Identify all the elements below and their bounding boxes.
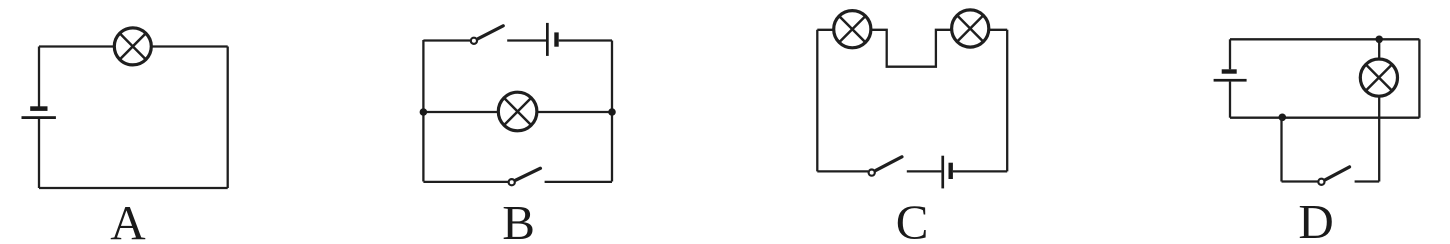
switch S-C lever <box>876 157 902 171</box>
junction dot B right <box>608 108 616 116</box>
wire D: switch branch left vertical <box>1280 118 1282 182</box>
switch S2-B lever <box>516 168 541 180</box>
switch S-C open circle <box>869 170 875 176</box>
switch S1-B open circle <box>471 38 477 44</box>
wire D: right edge <box>1418 39 1420 117</box>
lamp L-B circle <box>498 92 537 131</box>
wire D: left edge upper segment <box>1229 39 1231 69</box>
junction dot D middle <box>1279 114 1287 122</box>
lamp L-D circle <box>1360 59 1397 96</box>
wire B: left edge <box>422 40 424 182</box>
wire C: bottom wire left segment <box>817 170 868 172</box>
battery BT-A (long thin positive plate) <box>22 116 56 119</box>
svg-text:D: D <box>1298 194 1333 244</box>
lamp L-A circle <box>114 28 151 65</box>
switch S-D lever <box>1325 167 1349 180</box>
wire C: top wire left segment <box>817 29 852 31</box>
lamp L-A cross <box>120 33 146 59</box>
switch S-D open circle <box>1318 179 1324 185</box>
wire D: left edge lower segment <box>1229 82 1231 118</box>
wire D: top wire <box>1230 38 1419 40</box>
wire A: left edge upper segment <box>38 47 40 107</box>
wire D: middle wire <box>1230 117 1419 119</box>
wire C: top wire between lamps with dip <box>852 30 970 67</box>
wire B: bottom wire right segment <box>545 181 612 183</box>
battery BT-B long thin plate <box>546 23 549 56</box>
wire D: bottom wire right segment <box>1355 180 1380 182</box>
battery BT-C long thin plate <box>941 156 944 189</box>
svg-text:B: B <box>502 195 535 244</box>
lamp L2-C circle <box>952 10 989 47</box>
battery BT-C short thick plate <box>949 163 953 179</box>
wire C: bottom wire right segment <box>953 170 1007 172</box>
battery BT-D short thick plate <box>1222 69 1237 73</box>
wire A: left edge lower segment <box>38 119 40 188</box>
wire A: bottom wire <box>39 187 228 189</box>
wire A: top wire <box>39 45 228 47</box>
lamp L1-C cross <box>839 16 865 42</box>
wire B: top wire middle segment <box>507 39 546 41</box>
switch S2-B open circle <box>509 179 515 185</box>
wire B: top wire left segment <box>423 39 470 41</box>
battery BT-A (short thick negative plate) <box>30 106 47 111</box>
battery BT-D long thin plate <box>1214 79 1247 82</box>
lamp L-B cross <box>504 98 531 125</box>
wire D: lamp branch vertical <box>1378 39 1380 181</box>
lamp L1-C circle <box>834 11 871 48</box>
wire C: top wire right segment <box>970 29 1007 31</box>
wire B: right edge <box>611 41 613 182</box>
wire A: right edge <box>227 47 229 189</box>
battery BT-B short thick plate <box>554 32 558 46</box>
wire B: bottom wire left segment <box>423 181 508 183</box>
wire C: left edge <box>816 30 818 172</box>
junction dot B left <box>420 108 428 116</box>
wire D: bottom wire left segment <box>1282 180 1318 182</box>
wire B: middle wire <box>423 111 612 113</box>
wire C: right edge <box>1006 30 1008 172</box>
lamp L2-C cross <box>957 15 983 41</box>
wire B: top wire right segment <box>559 39 612 41</box>
svg-text:A: A <box>110 195 146 244</box>
wire C: bottom wire middle segment <box>907 170 942 172</box>
switch S1-B lever <box>478 26 503 39</box>
svg-text:C: C <box>896 195 929 244</box>
junction dot D top <box>1375 36 1383 44</box>
lamp L-D cross <box>1366 64 1392 90</box>
